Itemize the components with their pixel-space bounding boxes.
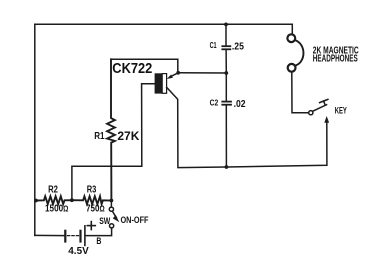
svg-text:CK722: CK722: [112, 61, 152, 77]
wire R1 top to emitter node: [111, 59, 178, 71]
svg-text:4.5V: 4.5V: [68, 245, 88, 257]
svg-text:SW: SW: [99, 216, 110, 226]
svg-text:ON-OFF: ON-OFF: [121, 215, 149, 225]
wire left rail: [34, 24, 36, 235]
wire emitter node to C1/C2 junction: [178, 72, 226, 74]
capacitor C1 .25: [225, 24, 227, 45]
wire collector bottom rail to key arrow: [178, 122, 327, 167]
wire base net: base lead down and left to R2/R3 junction: [72, 84, 155, 199]
switch SW ON-OFF: [109, 207, 113, 211]
node R2 / R3 / base junction: [70, 198, 74, 202]
battery B 4.5V: [65, 231, 80, 242]
svg-text:1500Ω: 1500Ω: [45, 203, 69, 214]
node R3 / R1 / switch junction: [110, 199, 114, 203]
svg-text:750Ω: 750Ω: [86, 203, 105, 214]
svg-text:.02: .02: [234, 99, 246, 110]
svg-text:B: B: [96, 236, 101, 246]
transistor Q1 CK722: [155, 73, 162, 93]
resistor R2 1500 ohm: [36, 196, 72, 204]
node collector wire / C2 junction: [225, 165, 229, 169]
svg-text:.25: .25: [232, 42, 244, 53]
resistor R1 27K: [107, 59, 115, 198]
capacitor C2 .02: [225, 73, 227, 100]
resistor R3 750 ohm: [72, 196, 112, 204]
svg-text:R3: R3: [87, 184, 97, 195]
svg-text:HEADPHONES: HEADPHONES: [313, 53, 358, 64]
arrow key moving contact: [324, 116, 329, 123]
wire headphones to key: [292, 72, 309, 113]
node top rail / C1 junction: [224, 23, 228, 27]
key S1: [309, 111, 313, 115]
node C1 / C2 / emitter junction: [224, 71, 228, 75]
svg-text:C2: C2: [210, 98, 219, 108]
node left rail / R2 junction: [34, 199, 38, 203]
svg-text:R1: R1: [94, 131, 105, 142]
headphones 2K magnetic: [287, 34, 295, 42]
wire battery plus to switch: [86, 228, 112, 236]
svg-text:R2: R2: [48, 184, 58, 195]
wire top rail: [35, 24, 293, 34]
svg-text:KEY: KEY: [335, 105, 348, 116]
node emitter junction: [176, 71, 180, 75]
wire bottom left to battery: [35, 234, 64, 236]
svg-text:C1: C1: [210, 40, 217, 50]
wire R3 node to switch: [110, 201, 112, 208]
svg-text:27K: 27K: [117, 131, 140, 143]
